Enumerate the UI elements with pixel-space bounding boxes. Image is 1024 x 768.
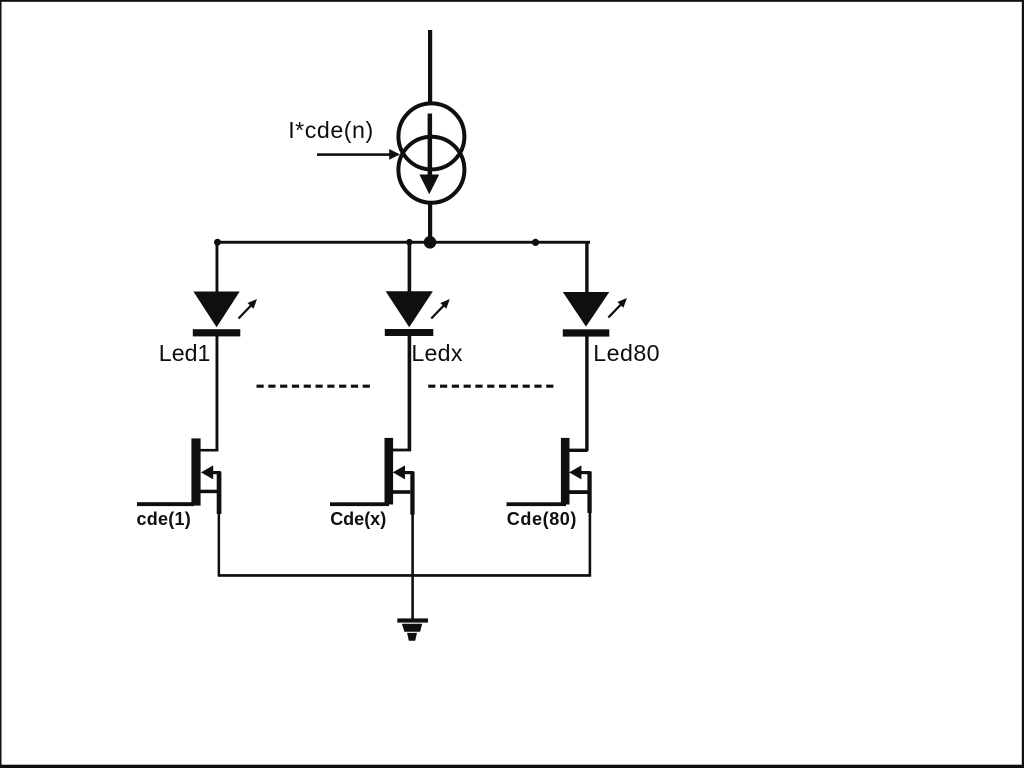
- wire Led1 to M1 drain: [216, 336, 219, 451]
- LED Led80: [563, 292, 627, 337]
- LED Ledx: [385, 291, 450, 336]
- svg-text:Ledx: Ledx: [411, 340, 462, 366]
- LED Led1: [193, 292, 257, 337]
- wire top feed: [428, 30, 432, 102]
- current source U1 I*cde(n): [398, 103, 464, 202]
- node dot right tap: [532, 239, 539, 246]
- svg-text:cde(1): cde(1): [137, 509, 192, 529]
- wire Led80 to M80 drain: [585, 336, 588, 451]
- dashed continuation right: [428, 385, 557, 388]
- node junction dot at bus: [424, 236, 437, 249]
- node dot left branch: [214, 239, 221, 246]
- wire M1 source to bottom bus: [218, 514, 221, 577]
- transistor Mx: [330, 438, 415, 515]
- wire bus to Ledx: [408, 242, 412, 292]
- transistor M1: [137, 438, 221, 514]
- wire M80 source to bottom bus: [589, 513, 592, 577]
- svg-text:I*cde(n): I*cde(n): [288, 117, 374, 143]
- wire top bus: [216, 241, 590, 244]
- wire Ledx to Mx drain: [408, 336, 412, 451]
- svg-text:Led80: Led80: [593, 340, 660, 366]
- svg-text:Cde(80): Cde(80): [507, 509, 577, 529]
- wire current source to bus: [428, 203, 432, 243]
- wire bottom bus: [218, 574, 591, 577]
- dashed continuation left: [257, 385, 375, 388]
- wire Mx source to ground through bottom bus: [411, 515, 414, 620]
- svg-text:Led1: Led1: [159, 340, 211, 366]
- node dot middle branch: [406, 239, 413, 246]
- pointer arrow to current source: [317, 149, 400, 160]
- svg-text:Cde(x): Cde(x): [330, 509, 386, 529]
- ground: [397, 618, 428, 640]
- wire bus to Led80: [585, 242, 588, 292]
- wire bus to Led1: [216, 242, 219, 292]
- transistor M80: [507, 438, 592, 513]
